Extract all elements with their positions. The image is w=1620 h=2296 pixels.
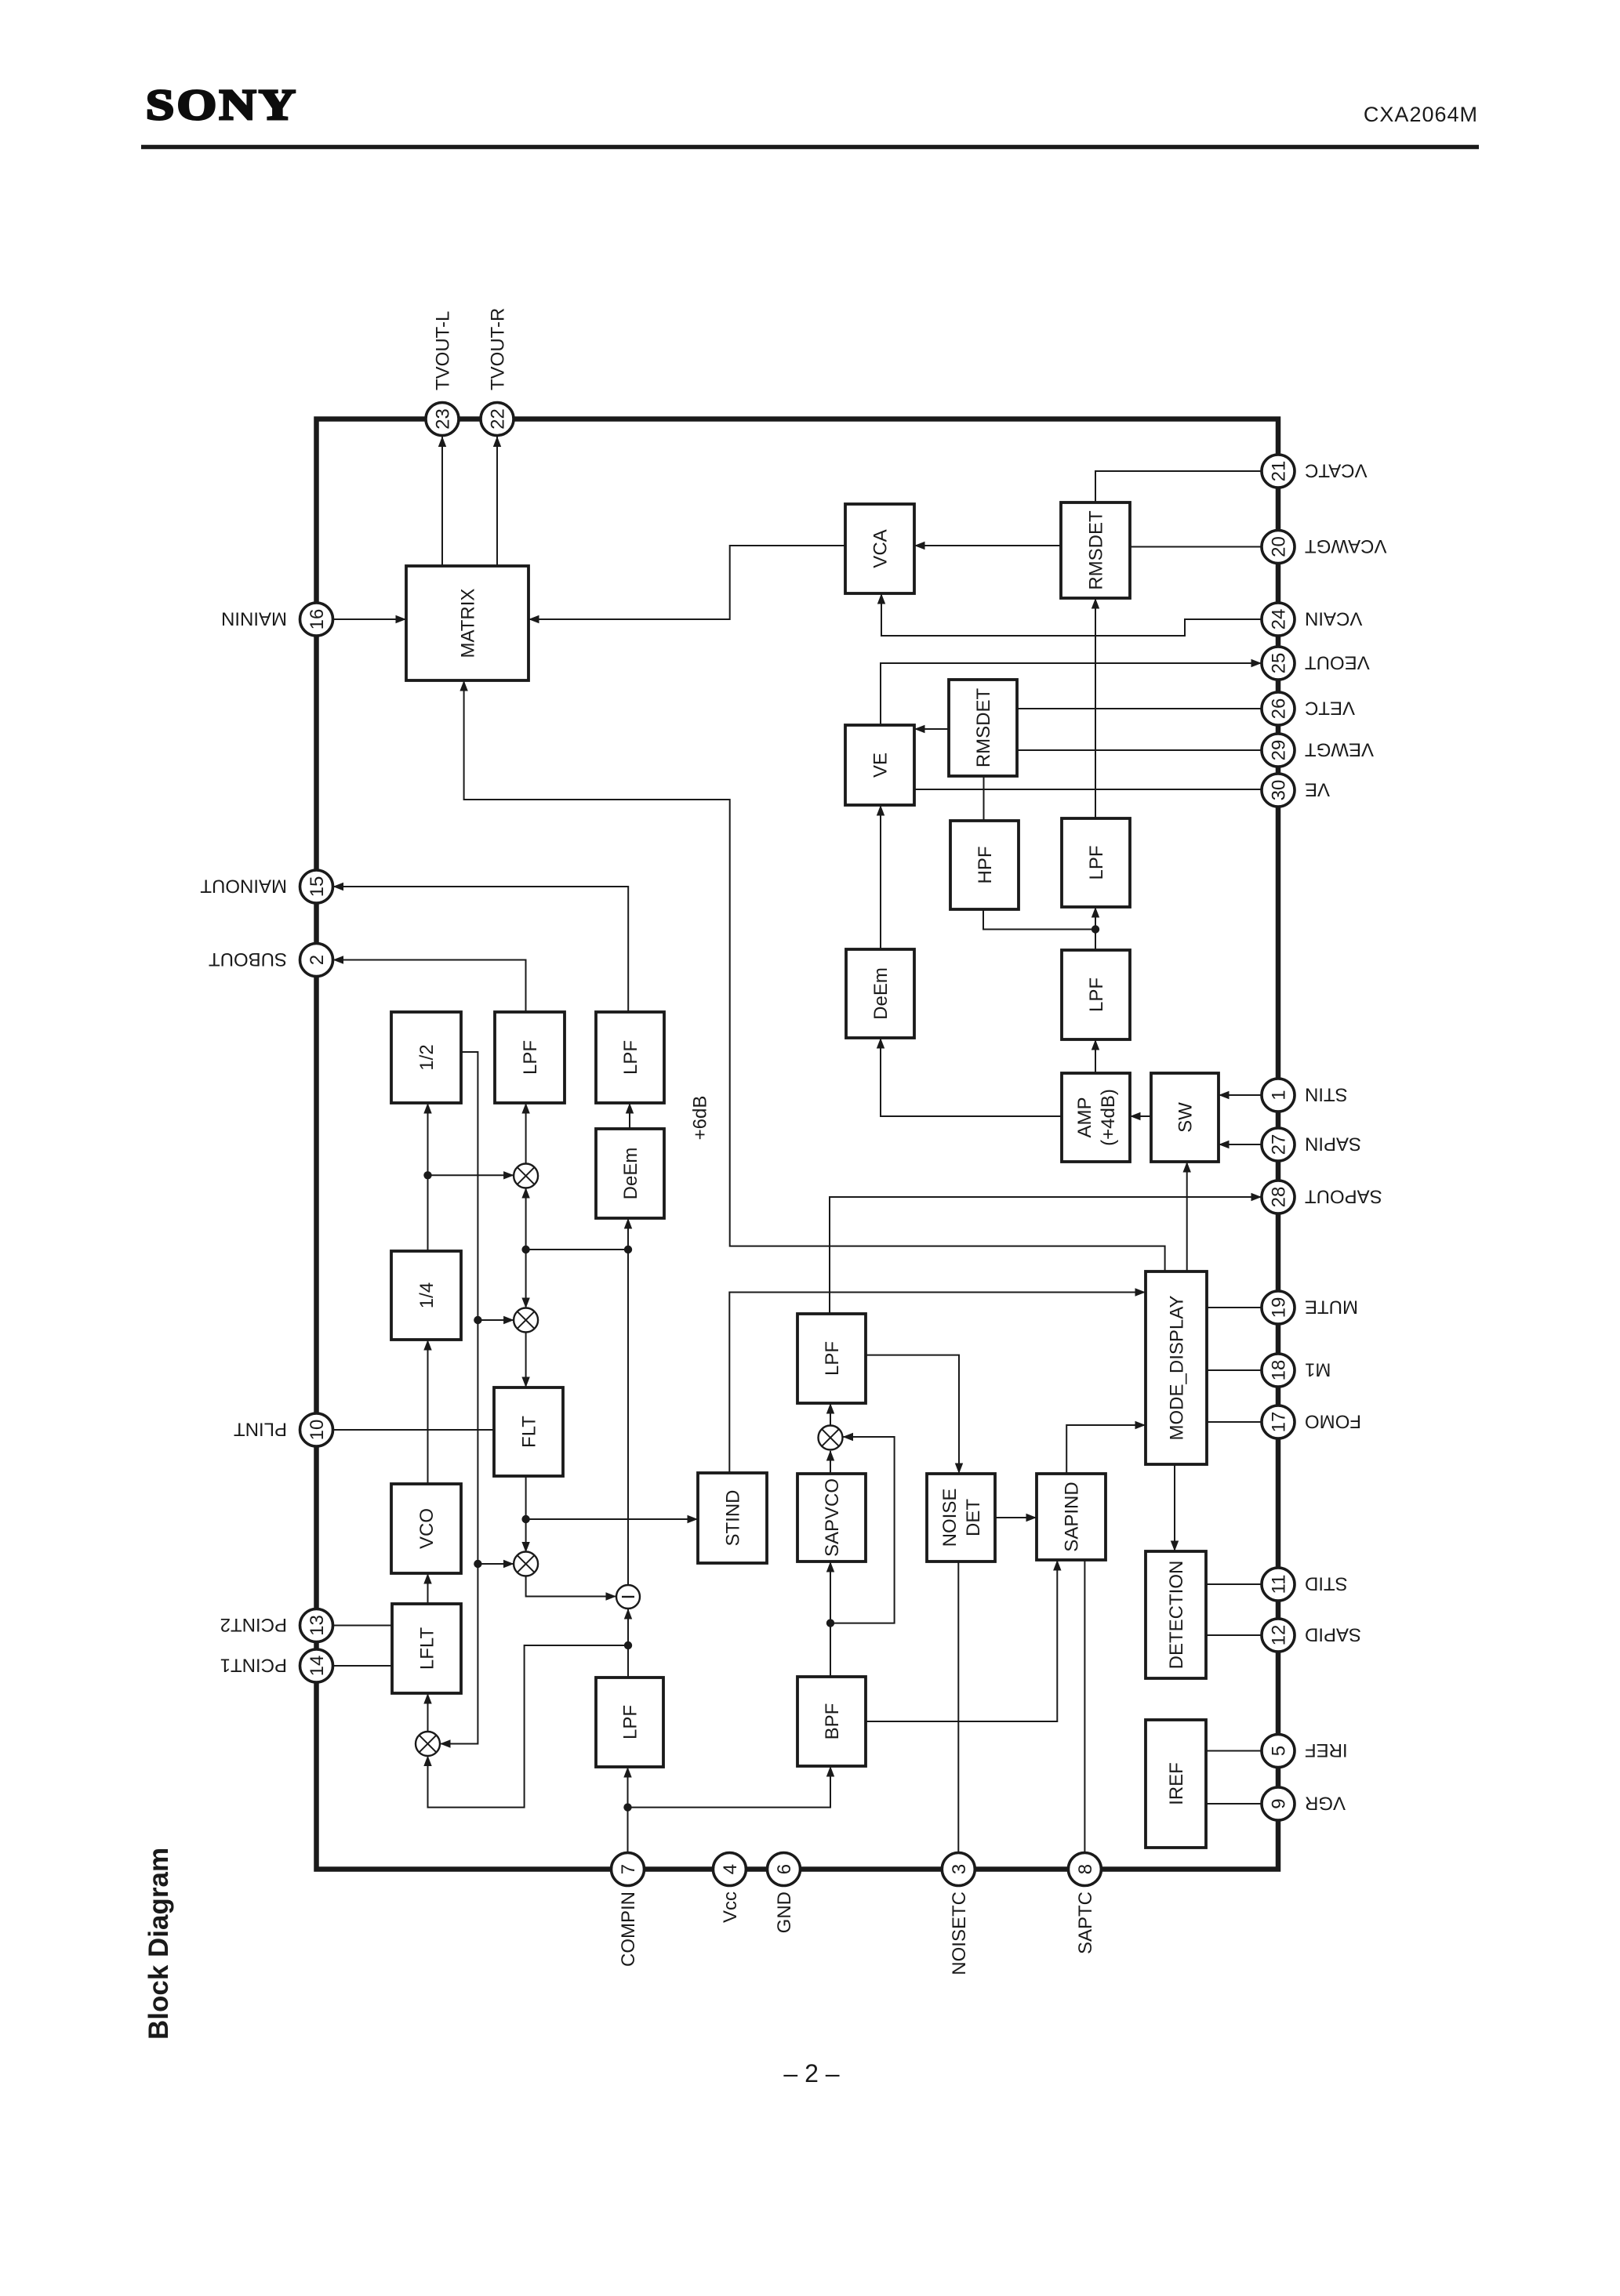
svg-text:5: 5 [1269, 1746, 1290, 1756]
svg-text:VEWGT: VEWGT [1305, 738, 1374, 760]
svg-text:13: 13 [307, 1615, 328, 1636]
svg-text:26: 26 [1269, 698, 1290, 720]
wire pin 27 SAPIN to SW [1219, 1141, 1262, 1148]
wire branch to multiplier 3 [478, 1560, 514, 1568]
wire AMP to DeEm [877, 1038, 1062, 1116]
svg-text:15: 15 [307, 876, 328, 898]
svg-text:SAPID: SAPID [1305, 1623, 1361, 1645]
svg-text:RMSDET: RMSDET [1086, 510, 1107, 590]
pin 22 TVOUT-R [481, 308, 514, 436]
svg-text:MUTE: MUTE [1305, 1296, 1358, 1317]
pin 14 PCINT1 [220, 1649, 333, 1682]
wire 1/4 to 1/2 [423, 1103, 431, 1251]
svg-text:SAPOUT: SAPOUT [1305, 1185, 1382, 1206]
block SAPIND [1037, 1474, 1106, 1560]
wire 1/2 output feedback [440, 1052, 478, 1748]
wire subtractor to DeEm and multiplier [521, 1188, 632, 1585]
block SAPVCO [797, 1474, 866, 1561]
wire AMP to LPF2 [1092, 1039, 1099, 1073]
pin 6 GND [768, 1853, 801, 1934]
multiplier node X5 SAP [819, 1426, 843, 1450]
svg-text:DET: DET [963, 1499, 984, 1536]
wire VE to pin 30 [914, 789, 1262, 790]
svg-text:AMP: AMP [1074, 1097, 1095, 1137]
junction BPF output [826, 1619, 834, 1627]
wire RMSDET2 to HPF [983, 776, 985, 821]
svg-text:19: 19 [1269, 1297, 1290, 1318]
svg-text:2: 2 [307, 955, 328, 965]
block AMP +4dB [1062, 1073, 1130, 1162]
svg-text:25: 25 [1269, 653, 1290, 674]
svg-text:SAPVCO: SAPVCO [822, 1478, 843, 1557]
wire RMSDET2 to pin 26 VETC [1017, 708, 1262, 709]
wire pin 13 PCINT2 to LFLT [333, 1625, 393, 1627]
svg-text:GND: GND [774, 1892, 795, 1933]
block NOISE DET [927, 1474, 995, 1561]
svg-text:VGR: VGR [1305, 1792, 1346, 1813]
svg-text:16: 16 [307, 609, 328, 630]
wire BPF to SAPIND [866, 1560, 1062, 1721]
svg-text:Block Diagram: Block Diagram [143, 1848, 174, 2040]
svg-text:8: 8 [1075, 1864, 1096, 1874]
wire MODE_DISPLAY to pin 17 FOMO [1207, 1421, 1262, 1423]
wire SAPIND to MODE_DISPLAY [1066, 1421, 1146, 1473]
block LPF U3 [1062, 818, 1130, 907]
svg-text:PCINT1: PCINT1 [220, 1654, 287, 1675]
svg-text:TVOUT-R: TVOUT-R [488, 308, 509, 390]
wire branch to multiplier 2 [478, 1316, 514, 1324]
SONY logo [146, 82, 298, 129]
wire LPF to NOISE DET [866, 1355, 963, 1474]
block HPF [950, 821, 1019, 909]
svg-text:MAININ: MAININ [221, 608, 287, 629]
svg-text:9: 9 [1269, 1798, 1290, 1808]
svg-text:LPF: LPF [1086, 978, 1107, 1012]
svg-text:BPF: BPF [822, 1703, 843, 1740]
pin 17 FOMO [1262, 1406, 1361, 1438]
svg-text:28: 28 [1269, 1187, 1290, 1208]
label +6dB [690, 1096, 711, 1141]
svg-text:+6dB: +6dB [690, 1096, 711, 1141]
svg-text:14: 14 [307, 1656, 328, 1677]
block FLT [494, 1387, 563, 1476]
wire multiplier 1 to LPF [521, 1103, 529, 1163]
multiplier node X2 [514, 1308, 538, 1333]
svg-text:SAPIND: SAPIND [1062, 1482, 1083, 1551]
block LPF U6 [495, 1012, 565, 1103]
svg-text:VCO: VCO [416, 1508, 438, 1549]
svg-text:VCA: VCA [870, 529, 892, 568]
wire pin 10 PLINT to FLT [333, 1429, 495, 1431]
junction FLT output [521, 1515, 529, 1523]
wire RMSDET to VCA [914, 542, 1061, 550]
svg-text:LPF: LPF [1086, 845, 1107, 880]
svg-text:LPF: LPF [620, 1705, 641, 1739]
wire LFLT to VCO [423, 1573, 431, 1604]
junction DeEm branch [624, 1246, 632, 1253]
junction HPF-LPF [1092, 925, 1099, 933]
svg-text:COMPIN: COMPIN [618, 1892, 639, 1967]
part number CXA2064M [1364, 103, 1478, 126]
svg-text:NOISE: NOISE [939, 1489, 961, 1547]
block BPF [797, 1677, 866, 1766]
block RMSDET U2 [949, 680, 1017, 776]
pin 18 M1 [1262, 1354, 1331, 1387]
wire MAININ pin 16 to MATRIX [333, 615, 407, 623]
pin 5 IREF [1262, 1735, 1348, 1768]
svg-text:VCAWGT: VCAWGT [1305, 535, 1387, 557]
block LPF U10 [596, 1678, 663, 1767]
block DeEm U4 [846, 949, 914, 1038]
svg-text:VE: VE [870, 753, 892, 778]
svg-text:LPF: LPF [620, 1040, 641, 1075]
block VCO [391, 1484, 461, 1573]
svg-text:24: 24 [1269, 609, 1290, 630]
block VE [845, 725, 914, 805]
multiplier node X3 [514, 1552, 538, 1576]
junction multiplier branch [521, 1246, 529, 1253]
multiplier node X1 [514, 1164, 538, 1188]
wire LPF to pin 28 SAPOUT [830, 1193, 1262, 1314]
svg-text:SAPIN: SAPIN [1305, 1133, 1361, 1154]
pin 8 SAPTC [1068, 1853, 1101, 1955]
svg-text:MODE_DISPLAY: MODE_DISPLAY [1167, 1296, 1188, 1441]
wire LPF to pin 15 MAINOUT [333, 883, 629, 1012]
svg-text:DETECTION: DETECTION [1166, 1561, 1187, 1670]
wire SAPVCO to SAP multiplier [826, 1450, 834, 1474]
wire LPF to RMSDET [1092, 598, 1099, 818]
wire MODE_DISPLAY to pin 18 M1 [1207, 1369, 1262, 1371]
svg-text:IREF: IREF [1305, 1739, 1348, 1761]
wire RMSDET2 to VE [914, 725, 949, 733]
svg-text:LPF: LPF [822, 1341, 843, 1376]
wire DETECTION to pin 12 SAPID [1206, 1634, 1262, 1636]
svg-text:STID: STID [1305, 1572, 1348, 1594]
pin 20 VCAWGT [1262, 531, 1386, 564]
svg-text:Vcc: Vcc [720, 1892, 741, 1923]
pin 16 MAININ [221, 603, 333, 636]
pin 15 MAINOUT [200, 870, 333, 903]
svg-text:VE: VE [1305, 778, 1330, 800]
wire RMSDET to pin 20 VCAWGT [1130, 546, 1262, 548]
wire multiplier 3 to subtractor [526, 1576, 616, 1601]
block 1/4 divider [391, 1251, 461, 1340]
block LFLT [392, 1604, 461, 1693]
block VCA [845, 504, 914, 593]
block MODE_DISPLAY [1146, 1271, 1207, 1464]
wire VCA output to MATRIX [528, 546, 845, 623]
svg-text:23: 23 [433, 408, 454, 430]
wire MATRIX to pin 23 [438, 436, 446, 566]
wire FLT to STIND and multiplier 3 [521, 1476, 698, 1553]
svg-text:LFLT: LFLT [417, 1627, 438, 1670]
svg-text:21: 21 [1269, 461, 1290, 482]
svg-text:6: 6 [774, 1864, 795, 1874]
wire STIND to MODE_DISPLAY [729, 1288, 1146, 1473]
wire DeEm to LPF [626, 1103, 634, 1129]
svg-text:VCATC: VCATC [1305, 459, 1368, 481]
svg-text:VETC: VETC [1305, 697, 1355, 718]
wire BPF to SAPVCO [826, 1561, 834, 1677]
svg-text:VEOUT: VEOUT [1305, 651, 1370, 673]
pin 7 COMPIN [612, 1853, 645, 1968]
svg-text:11: 11 [1269, 1575, 1290, 1594]
wire MODE_DISPLAY to DETECTION [1171, 1464, 1179, 1551]
pin 10 PLINT [234, 1413, 333, 1446]
wire LPF to subtractor [624, 1609, 632, 1678]
wire MODE_DISPLAY to pin 19 MUTE [1207, 1307, 1262, 1308]
wire feedback to multiplier 4 [423, 1645, 628, 1808]
svg-text:3: 3 [949, 1864, 970, 1874]
wire MATRIX to pin 22 [493, 436, 501, 566]
wire pin 24 VCAIN to VCA [877, 593, 1262, 636]
block LPF U5 [1062, 950, 1130, 1039]
pin 12 SAPID [1262, 1619, 1361, 1652]
svg-text:IREF: IREF [1166, 1762, 1187, 1805]
svg-text:STIN: STIN [1305, 1083, 1348, 1104]
svg-text:1: 1 [1269, 1090, 1290, 1100]
wire IREF to pin 9 VGR [1206, 1803, 1262, 1805]
svg-text:FOMO: FOMO [1305, 1410, 1361, 1431]
wire LPF2 to LPF1 [1092, 907, 1099, 950]
svg-text:1/2: 1/2 [416, 1044, 438, 1070]
IC outer boundary [317, 419, 1279, 1870]
svg-text:30: 30 [1269, 780, 1290, 801]
svg-text:DeEm: DeEm [870, 967, 892, 1020]
pin 1 STIN [1262, 1079, 1348, 1112]
svg-text:SUBOUT: SUBOUT [209, 949, 287, 970]
svg-text:22: 22 [488, 408, 509, 430]
block SW [1151, 1073, 1219, 1162]
wire MODE_DISPLAY to SW [1183, 1162, 1191, 1271]
pin 4 Vcc [713, 1853, 746, 1924]
pin 27 SAPIN [1262, 1128, 1361, 1161]
svg-text:RMSDET: RMSDET [973, 688, 994, 768]
wire RMSDET2 to pin 29 VEWGT [1017, 749, 1262, 751]
svg-text:7: 7 [618, 1864, 639, 1874]
pin 11 STID [1262, 1568, 1348, 1601]
block 1/2 divider [391, 1012, 461, 1103]
wire IREF to pin 5 [1206, 1750, 1262, 1752]
wire RMSDET to pin 21 VCATC [1095, 471, 1262, 502]
wire DETECTION to pin 11 STID [1206, 1583, 1262, 1585]
wire VE to pin 25 VEOUT [881, 659, 1262, 725]
pin 21 VCATC [1262, 455, 1368, 488]
pin 2 SUBOUT [209, 944, 333, 977]
svg-text:17: 17 [1269, 1412, 1290, 1433]
svg-text:M1: M1 [1305, 1358, 1331, 1380]
wire pin 14 PCINT1 to LFLT [333, 1665, 393, 1667]
multiplier node X4 [416, 1732, 440, 1756]
page number -2- [783, 2059, 839, 2087]
pin 29 VEWGT [1262, 734, 1374, 767]
wire VCO to 1/4 [423, 1340, 431, 1484]
wire COMPIN branch to BPF [628, 1766, 835, 1808]
svg-text:– 2 –: – 2 – [783, 2059, 839, 2087]
wire NOISE DET to pin 3 NOISETC [957, 1561, 959, 1853]
block RMSDET U1 [1061, 502, 1130, 598]
svg-text:20: 20 [1269, 536, 1290, 557]
svg-text:NOISETC: NOISETC [949, 1892, 970, 1975]
wire NOISE DET to SAPIND [995, 1514, 1037, 1522]
pin 3 NOISETC [942, 1853, 975, 1975]
svg-text:27: 27 [1269, 1134, 1290, 1155]
svg-text:LPF: LPF [520, 1040, 541, 1075]
svg-text:PCINT2: PCINT2 [220, 1614, 287, 1635]
svg-text:4: 4 [720, 1864, 741, 1874]
wire LPF to pin 2 SUBOUT [333, 956, 526, 1012]
svg-text:TVOUT-L: TVOUT-L [433, 311, 454, 390]
svg-text:MAINOUT: MAINOUT [200, 875, 287, 896]
svg-text:1/4: 1/4 [416, 1282, 438, 1308]
svg-text:VCAIN: VCAIN [1305, 608, 1362, 629]
junction 1/4 output [423, 1171, 431, 1179]
svg-text:SW: SW [1175, 1102, 1197, 1133]
wire HPF to LPF junction [983, 909, 1095, 930]
block MATRIX [406, 566, 528, 680]
pin 26 VETC [1262, 692, 1355, 725]
title Block Diagram [143, 1848, 174, 2040]
wire SAP multiplier to LPF [826, 1403, 834, 1425]
svg-text:18: 18 [1269, 1360, 1290, 1381]
pin 13 PCINT2 [220, 1609, 333, 1642]
pin 30 VE [1262, 774, 1330, 807]
block DeEm U8 [596, 1129, 664, 1218]
header rule [141, 145, 1479, 150]
block LPF U7 [596, 1012, 664, 1103]
svg-text:FLT: FLT [519, 1416, 540, 1448]
pin 19 MUTE [1262, 1291, 1358, 1324]
wire DeEm to VE [877, 805, 884, 949]
wire multiplier 2 to FLT [521, 1333, 529, 1387]
pin 25 VEOUT [1262, 647, 1370, 680]
wire pin 1 STIN to SW [1219, 1091, 1262, 1099]
wire pin 7 COMPIN to LPF [623, 1767, 631, 1853]
svg-text:SONY: SONY [146, 82, 298, 129]
svg-text:PLINT: PLINT [234, 1418, 287, 1439]
junction subtractor input [624, 1641, 632, 1649]
wire pin 8 SAPTC to SAPIND [1084, 1560, 1085, 1853]
block IREF [1146, 1720, 1206, 1848]
svg-text:CXA2064M: CXA2064M [1364, 103, 1478, 126]
pin 9 VGR [1262, 1787, 1346, 1820]
pin 28 SAPOUT [1262, 1181, 1382, 1213]
svg-text:(+4dB): (+4dB) [1098, 1089, 1119, 1146]
block STIND [698, 1473, 767, 1563]
junction feedback 1 [474, 1316, 481, 1324]
svg-text:STIND: STIND [723, 1490, 744, 1547]
svg-text:SAPTC: SAPTC [1075, 1892, 1096, 1954]
junction COMPIN [623, 1803, 631, 1811]
svg-text:10: 10 [307, 1420, 328, 1441]
pin 24 VCAIN [1262, 603, 1362, 636]
wire BPF branch to SAP multiplier [830, 1433, 895, 1623]
wire SW to AMP [1130, 1112, 1151, 1120]
wire branch to multiplier 1 [428, 1171, 514, 1179]
svg-text:29: 29 [1269, 740, 1290, 761]
svg-text:MATRIX: MATRIX [458, 589, 479, 658]
wire MODE_DISPLAY to MATRIX [459, 680, 1164, 1271]
svg-text:12: 12 [1269, 1625, 1290, 1646]
block DETECTION [1146, 1551, 1206, 1678]
junction feedback 2 [474, 1560, 481, 1568]
block LPF U9 [797, 1314, 866, 1403]
pin 23 TVOUT-L [426, 311, 459, 436]
wire multiplier 4 to LFLT [423, 1693, 431, 1732]
svg-text:HPF: HPF [975, 847, 996, 884]
svg-text:DeEm: DeEm [620, 1148, 641, 1200]
subtractor node [616, 1585, 640, 1609]
